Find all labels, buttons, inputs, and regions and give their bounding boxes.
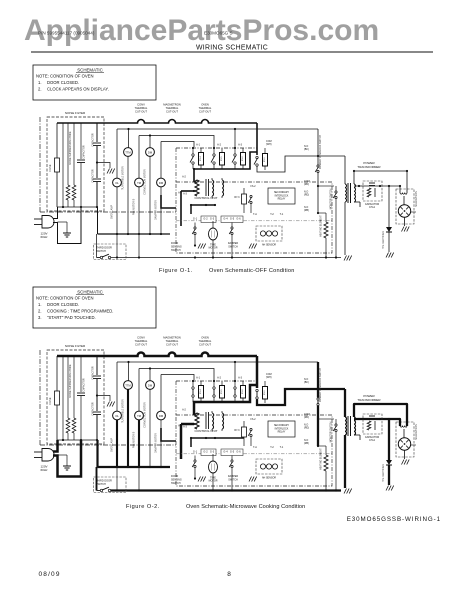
- wire xfmr mid: [354, 185, 401, 187]
- label third door switch: [96, 480, 112, 486]
- wire drop TM: [138, 136, 140, 179]
- transformer HV secondary: [354, 404, 360, 440]
- label COM WH: [266, 373, 272, 379]
- capacitor C1: [77, 356, 86, 440]
- svg-text:SWITCH: SWITCH: [171, 249, 181, 252]
- capacitor HV CH-A: [363, 414, 382, 434]
- relay RY-6: [234, 381, 246, 402]
- node A-3 pin: [183, 193, 187, 196]
- wire top rail in filter: [57, 355, 104, 358]
- svg-text:AH SENSOR: AH SENSOR: [262, 477, 276, 480]
- wire drop TTM: [128, 129, 130, 148]
- switch secondary interlock contacts: [248, 428, 252, 446]
- wire drop TM: [138, 369, 140, 412]
- wire drop OL: [116, 362, 118, 411]
- svg-text:G-3: G-3: [210, 218, 215, 221]
- ground supply: [58, 222, 72, 237]
- wire TTM down: [127, 157, 129, 235]
- svg-text:A-2: A-2: [217, 377, 222, 380]
- svg-text:SWITCH: SWITCH: [228, 245, 238, 248]
- label oven lamp: [111, 205, 114, 219]
- node G-1: [193, 451, 198, 454]
- node T-2: [270, 213, 274, 216]
- connector G-2 G-3: [201, 216, 216, 223]
- svg-text:A-3: A-3: [238, 377, 243, 380]
- svg-text:TRANSFORMER: TRANSFORMER: [357, 398, 381, 402]
- svg-text:G-1: G-1: [193, 451, 198, 454]
- switch third door: [100, 487, 110, 491]
- label FS-2: [251, 186, 257, 188]
- svg-text:DAMPER: DAMPER: [228, 475, 239, 478]
- label primary interlock switch: [319, 368, 322, 402]
- motor DM2: [157, 178, 166, 187]
- wire neutral bus: [98, 466, 171, 468]
- label magnetron: [411, 191, 418, 212]
- doc number: [347, 516, 441, 523]
- label turntable motor: [122, 166, 125, 190]
- svg-text:RY-1: RY-1: [264, 157, 266, 163]
- label HV rectifier: [382, 231, 385, 249]
- svg-text:POWER: POWER: [363, 161, 375, 165]
- ground control unit: [198, 477, 206, 482]
- svg-text:MONITOR SWITCH: MONITOR SWITCH: [331, 421, 333, 442]
- wire TM down: [138, 420, 140, 491]
- svg-text:SWITCH: SWITCH: [171, 482, 181, 485]
- svg-text:(RD): (RD): [304, 194, 309, 197]
- capacitor C1: [77, 123, 86, 207]
- wire cu divider: [176, 220, 332, 222]
- third door switch box: [94, 244, 127, 260]
- svg-text:FAN MOTOR B: FAN MOTOR B: [133, 431, 136, 448]
- svg-text:60Hz: 60Hz: [40, 468, 48, 472]
- switch door sensing: [192, 456, 196, 480]
- wire magnetron gnd: [404, 450, 406, 459]
- svg-text:E30MO65GSSB-WIRING-1: E30MO65GSSB-WIRING-1: [347, 516, 441, 523]
- ground control unit: [198, 244, 206, 249]
- svg-text:(RD): (RD): [304, 416, 309, 419]
- svg-text:A-1: A-1: [196, 377, 201, 380]
- wire plug neutral loop: [53, 440, 81, 477]
- diode HV rectifier: [386, 186, 392, 252]
- wire neutral rail: [117, 128, 318, 130]
- motor DM2: [157, 411, 166, 420]
- label door sensing switch: [171, 475, 182, 485]
- thermal cutout conv label: [135, 103, 148, 114]
- relay RY-4: [190, 148, 204, 169]
- label damper switch: [228, 242, 239, 248]
- wire top rail in filter: [57, 122, 104, 124]
- wire feeder A-3 drop: [234, 362, 236, 380]
- capacitor C3: [92, 169, 102, 207]
- wire heater bus: [317, 212, 326, 214]
- capacitor C2: [92, 123, 102, 178]
- wire neutral bus: [98, 233, 171, 235]
- capacitor C3: [92, 402, 102, 440]
- noise filter box: [47, 350, 104, 444]
- label oven lamp: [111, 438, 114, 452]
- svg-text:FS-2: FS-2: [251, 419, 257, 421]
- svg-text:2.: 2.: [38, 309, 42, 314]
- node G-1: [193, 218, 198, 221]
- inductor choke 2: [72, 356, 76, 440]
- wire drop TTM: [128, 362, 130, 381]
- svg-text:RY-5: RY-5: [221, 389, 223, 395]
- switch damper: [229, 223, 233, 258]
- control unit box: [176, 381, 332, 486]
- svg-text:OVEN LAMP: OVEN LAMP: [111, 205, 114, 219]
- connector G-2 G-3: [201, 449, 216, 456]
- wire RY1 out: [257, 389, 345, 405]
- svg-text:DAMPER: DAMPER: [228, 242, 239, 245]
- wire HV feed: [344, 389, 346, 417]
- svg-text:MAGNETRON: MAGNETRON: [415, 424, 418, 440]
- transformer LV core: [206, 179, 209, 196]
- svg-text:A-2: A-2: [217, 144, 222, 147]
- svg-text:(BK): (BK): [304, 148, 309, 151]
- relay RY-3: [234, 421, 246, 446]
- svg-text:G-5: G-5: [230, 218, 235, 221]
- svg-text:INTERLOCK: INTERLOCK: [275, 194, 289, 197]
- inductor noise suppression choke: [66, 356, 72, 440]
- power transformer label: [357, 161, 381, 169]
- wire relay bus: [193, 152, 257, 182]
- node A-2: [217, 144, 222, 147]
- wire TTM down: [127, 390, 129, 468]
- switch secondary interlock contacts: [248, 195, 252, 213]
- power transformer label: [357, 394, 381, 402]
- wire DM2 to A-4: [161, 425, 183, 442]
- svg-text:TURNTABLE MOTOR: TURNTABLE MOTOR: [122, 399, 125, 423]
- svg-text:G-2: G-2: [203, 451, 208, 454]
- wire top rail: [104, 120, 257, 123]
- label 120V 60Hz: [40, 465, 48, 473]
- wire feeder A-3 drop: [234, 129, 236, 147]
- svg-text:FS-2: FS-2: [251, 186, 257, 188]
- magnetron box: [396, 189, 414, 224]
- ground HV rectifier: [386, 486, 394, 491]
- svg-text:DOOR CLOSED.: DOOR CLOSED.: [47, 302, 79, 307]
- node A-2: [217, 377, 222, 380]
- svg-text:SCHEMATIC: SCHEMATIC: [77, 68, 103, 73]
- wire cap tap: [96, 394, 110, 401]
- svg-text:SENSING: SENSING: [171, 245, 182, 248]
- svg-text:(WH): (WH): [266, 143, 272, 146]
- control unit label: [194, 429, 217, 433]
- node T-2: [270, 446, 274, 449]
- svg-text:N.O: N.O: [304, 191, 308, 194]
- wire monitor feed: [318, 418, 334, 420]
- plug P1: [34, 216, 54, 229]
- wire bottom rail: [111, 489, 342, 491]
- noise filter box: [47, 117, 104, 211]
- motor DM: [146, 381, 155, 390]
- svg-text:(BK): (BK): [304, 381, 309, 384]
- capacitor HV label: [365, 436, 380, 442]
- wire TM down: [138, 187, 140, 258]
- transformer HV core: [348, 183, 351, 203]
- svg-text:G-3: G-3: [210, 451, 215, 454]
- lamp OL: [113, 411, 122, 420]
- svg-text:08/09: 08/09: [39, 571, 61, 578]
- label COM WH: [266, 140, 272, 146]
- label door sensing switch: [171, 242, 182, 252]
- note box 2: [33, 287, 156, 328]
- wire DM1 down: [149, 390, 151, 468]
- thermal cutout magnetron label: [163, 336, 181, 347]
- svg-text:CONTROL UNIT: CONTROL UNIT: [194, 196, 217, 200]
- label 120V 60Hz: [40, 232, 48, 240]
- svg-text:CONVECTION MOTOR: CONVECTION MOTOR: [144, 402, 147, 428]
- label COM RD: [304, 180, 310, 186]
- svg-text:RELAY: RELAY: [278, 198, 286, 201]
- svg-text:FAN MOTOR B: FAN MOTOR B: [133, 198, 136, 215]
- svg-text:(RD): (RD): [304, 427, 309, 430]
- wire chassis dash-dot bottom: [40, 444, 176, 446]
- svg-text:DOOR: DOOR: [171, 242, 178, 245]
- switch monitor: [333, 186, 337, 258]
- label NO RB: [304, 206, 309, 212]
- svg-text:NOISE SUPPRESSION CHOKE: NOISE SUPPRESSION CHOKE: [70, 131, 72, 165]
- wire xfmr top: [353, 403, 408, 405]
- svg-text:T-A: T-A: [253, 446, 257, 449]
- svg-text:TRANSFORMER: TRANSFORMER: [357, 165, 381, 169]
- relay RY-6: [232, 148, 246, 169]
- svg-text:RY-6: RY-6: [242, 156, 244, 162]
- wire plug hot: [53, 440, 58, 452]
- inductor noise suppression choke: [66, 123, 72, 207]
- wire plug neutral loop: [53, 207, 81, 244]
- control unit box: [176, 148, 332, 253]
- wire feeder row2: [161, 142, 194, 148]
- svg-text:DOOR CLOSED.: DOOR CLOSED.: [47, 80, 79, 85]
- node A-2 pin: [182, 409, 186, 412]
- svg-text:G-6: G-6: [236, 218, 241, 221]
- svg-text:2.: 2.: [38, 87, 42, 92]
- motor TM: [135, 178, 144, 187]
- transformer HV core: [348, 416, 351, 436]
- ground xfmr: [344, 489, 352, 494]
- motor TM: [135, 411, 144, 420]
- watermark AppliancePartsPros.com: [24, 14, 379, 47]
- node A-1: [196, 144, 201, 147]
- label conv motor: [144, 402, 147, 428]
- svg-text:RELAY: RELAY: [278, 431, 286, 434]
- noise filter label: [65, 344, 86, 348]
- svg-text:H.V. RECTIFIER: H.V. RECTIFIER: [382, 464, 385, 482]
- relay secondary interlock: [268, 188, 295, 204]
- inductor choke 2: [72, 123, 76, 207]
- wire filter col2: [62, 123, 64, 207]
- wire magnetron gnd: [404, 217, 406, 226]
- wire bottom rail: [111, 256, 342, 258]
- wire HV feed: [344, 156, 346, 184]
- wire filter neutral drop: [97, 207, 99, 234]
- wire feeder row1: [139, 134, 214, 147]
- svg-text:(RD): (RD): [304, 183, 309, 186]
- relay RY-1: [256, 381, 268, 403]
- capacitor HV CH-A: [363, 181, 382, 201]
- svg-text:Oven Schematic-OFF Condition: Oven Schematic-OFF Condition: [209, 268, 295, 274]
- svg-text:DAMPER MOTOR: DAMPER MOTOR: [155, 433, 158, 453]
- ground cap tap: [107, 402, 115, 407]
- transformer HV secondary: [354, 171, 360, 207]
- svg-text:3.: 3.: [38, 315, 42, 320]
- fuse F1: [48, 356, 60, 440]
- wire filter bottom: [57, 439, 98, 441]
- svg-text:SWITCH: SWITCH: [96, 483, 106, 486]
- svg-text:N.O: N.O: [304, 206, 308, 209]
- note box 1: [33, 65, 156, 100]
- wire drop DM1: [149, 136, 151, 148]
- switch monitor: [333, 419, 337, 491]
- svg-text:Figure O-2.: Figure O-2.: [126, 504, 160, 510]
- svg-text:DAMPER MOTOR: DAMPER MOTOR: [155, 200, 158, 220]
- svg-text:SCHEMATIC: SCHEMATIC: [77, 290, 103, 295]
- relay secondary interlock: [268, 421, 295, 437]
- svg-text:P/N 5995544117 (0905044): P/N 5995544117 (0905044): [38, 31, 95, 36]
- transformer LV primary: [194, 180, 199, 196]
- wire HV ground left: [344, 435, 346, 488]
- label HV rectifier: [382, 464, 385, 482]
- wire monitor feed: [318, 185, 334, 187]
- relay RY-5: [213, 381, 225, 402]
- svg-text:E30MO65G S: E30MO65G S: [204, 31, 233, 36]
- svg-text:MONITOR SWITCH: MONITOR SWITCH: [331, 188, 333, 209]
- wire xfmr mid: [354, 418, 401, 420]
- label NO RD: [304, 191, 309, 197]
- svg-text:H.V. RECTIFIER: H.V. RECTIFIER: [382, 231, 385, 249]
- label fan motor: [133, 431, 136, 448]
- svg-text:COM: COM: [304, 180, 310, 183]
- wire OL down: [116, 187, 118, 258]
- node A-2 pin: [182, 176, 186, 179]
- node T-1: [280, 446, 284, 449]
- header part-number text: [38, 31, 95, 36]
- figure O-2 caption: [126, 504, 305, 510]
- wire A-2 drop: [180, 191, 182, 226]
- label NO RD: [304, 424, 309, 430]
- svg-text:DOOR: DOOR: [171, 475, 178, 478]
- wire switch feed: [97, 234, 101, 258]
- svg-text:N.O: N.O: [304, 378, 308, 381]
- svg-text:T-A: T-A: [253, 213, 257, 216]
- svg-text:NOISE SUPPRESSION CHOKE: NOISE SUPPRESSION CHOKE: [70, 364, 72, 398]
- svg-text:SECONDARY: SECONDARY: [274, 191, 290, 194]
- svg-text:NOTE: CONDITION OF OVEN: NOTE: CONDITION OF OVEN: [36, 74, 93, 79]
- svg-text:N.O: N.O: [304, 439, 308, 442]
- svg-text:SECONDARY: SECONDARY: [274, 424, 290, 427]
- svg-text:N.O: N.O: [304, 145, 308, 148]
- thermal cutout conv label: [135, 336, 148, 347]
- transformer HV primary: [345, 184, 347, 202]
- figure O-1 caption: [159, 268, 295, 274]
- svg-text:CAPACITOR: CAPACITOR: [365, 436, 380, 439]
- relay RY-3: [234, 188, 246, 213]
- label turntable motor: [122, 399, 125, 423]
- transformer LV primary: [194, 413, 199, 429]
- motor time: [209, 454, 218, 491]
- svg-text:A-2: A-2: [182, 409, 186, 412]
- node T-A: [253, 446, 257, 449]
- motor DM: [146, 148, 155, 157]
- svg-text:THIRD DOOR: THIRD DOOR: [96, 247, 112, 250]
- svg-text:SENSING: SENSING: [171, 478, 182, 481]
- ground cap tap: [107, 169, 115, 174]
- wire DM2 down: [160, 420, 162, 467]
- label FS-2: [251, 419, 257, 421]
- wire relay dash row: [176, 147, 257, 149]
- svg-text:(WH): (WH): [266, 376, 272, 379]
- svg-text:A-1: A-1: [196, 144, 201, 147]
- magnetron tube: [398, 438, 410, 450]
- label third door switch: [96, 247, 112, 253]
- wire magnetron feeds: [400, 171, 407, 205]
- thermal cutout magnetron label: [163, 103, 181, 114]
- label primary interlock switch: [319, 135, 322, 169]
- sensor AH: [256, 226, 282, 247]
- motor TTM: [124, 381, 133, 390]
- svg-text:NOTE: CONDITION OF OVEN: NOTE: CONDITION OF OVEN: [36, 296, 93, 301]
- transformer LV secondary: [212, 411, 224, 431]
- svg-text:A-3: A-3: [183, 193, 187, 196]
- node A-3: [238, 377, 243, 380]
- svg-text:COOKING : TIME PROGRAMMED.: COOKING : TIME PROGRAMMED.: [47, 309, 113, 314]
- switch third door: [100, 254, 110, 258]
- svg-text:"START" PAD TOUCHED.: "START" PAD TOUCHED.: [47, 315, 96, 320]
- wire A-2 drop: [180, 424, 183, 459]
- capacitor C2: [92, 356, 102, 411]
- svg-text:RY-3: RY-3: [234, 196, 240, 199]
- wire DM2 to A-4: [161, 192, 183, 209]
- svg-text:COM: COM: [266, 373, 272, 376]
- svg-text:AH SENSOR: AH SENSOR: [262, 244, 276, 247]
- svg-text:A-2: A-2: [182, 176, 186, 179]
- wire HV ground left: [344, 202, 346, 255]
- wire filter bottom: [57, 206, 98, 208]
- fuse F1: [48, 123, 60, 207]
- footer date: [39, 571, 61, 578]
- ground supply: [58, 455, 72, 470]
- ground cu 2: [249, 244, 257, 249]
- wire feeder row2: [161, 375, 194, 381]
- relay RY-1: [254, 148, 268, 170]
- svg-text:G-2: G-2: [203, 218, 208, 221]
- noise filter label: [65, 111, 86, 115]
- magnetron tube: [398, 205, 410, 217]
- wire RY1 out: [257, 156, 345, 172]
- sensor AH: [256, 459, 282, 480]
- wire heater bus: [317, 445, 326, 447]
- capacitor HV label: [365, 203, 380, 209]
- svg-text:POWER: POWER: [363, 394, 375, 398]
- svg-text:THIRD DOOR: THIRD DOOR: [96, 480, 112, 483]
- transformer LV secondary: [212, 178, 224, 198]
- wire neutral rail: [117, 361, 318, 363]
- wire drop DM2: [160, 375, 162, 412]
- lamp OL: [113, 178, 122, 187]
- svg-text:A-3: A-3: [238, 144, 243, 147]
- svg-text:RY-1: RY-1: [264, 390, 266, 396]
- node T-1: [280, 213, 284, 216]
- svg-text:G-1: G-1: [193, 218, 198, 221]
- wire chassis dash-dot left: [39, 117, 41, 212]
- wire DM1 down: [149, 157, 151, 235]
- svg-text:CH-A: CH-A: [369, 439, 375, 442]
- node A-3 pin: [183, 426, 187, 429]
- svg-text:G-4: G-4: [223, 218, 228, 221]
- wire drop DM2: [160, 142, 162, 179]
- wire drop DM1: [149, 369, 151, 381]
